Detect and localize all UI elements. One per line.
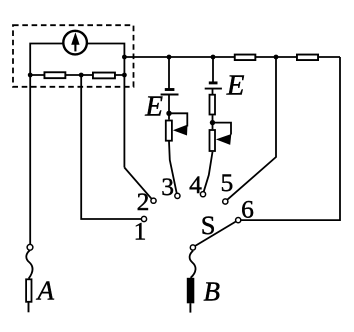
contact 5 bbox=[223, 199, 228, 204]
contact 6 bbox=[236, 218, 241, 223]
junction dot contact5 branch bbox=[274, 55, 279, 60]
rheostat RP2 wiper arm bbox=[213, 123, 232, 135]
wire: contact2 diagonal from bus bbox=[124, 168, 151, 199]
dashed enclosure box around galvanometer assembly bbox=[13, 25, 134, 87]
probe A tip wire bbox=[28, 303, 30, 313]
svg-text:E: E bbox=[144, 90, 163, 122]
junction dot branch2 wiper bbox=[210, 120, 215, 125]
wire: left column to probe A bbox=[29, 75, 31, 244]
wire: galvanometer right lead down to top bus bbox=[87, 44, 125, 168]
junction dot right upper on top bus bbox=[122, 55, 127, 60]
svg-text:4: 4 bbox=[189, 170, 202, 199]
probe A flexible lead bbox=[26, 250, 32, 278]
wire: branch1 bottom to contact 3 bbox=[169, 142, 177, 194]
wire: branch1 between battery and rheostat bbox=[168, 95, 170, 120]
probe A terminal bbox=[27, 244, 33, 250]
probe A body bbox=[26, 279, 31, 302]
wire: galvanometer left lead bbox=[30, 44, 63, 76]
junction dot left bbox=[28, 73, 33, 78]
wire: shunt resistor row bbox=[30, 74, 124, 76]
junction dot right lower bbox=[122, 73, 127, 78]
wire: branch1 top segment bbox=[168, 57, 170, 88]
contact 3 bbox=[175, 193, 180, 198]
wire: branch2 battery to R5 bbox=[212, 89, 214, 94]
wire: right side down to contact 6 bbox=[241, 57, 340, 220]
resistor R1 (left shunt) bbox=[44, 72, 65, 78]
resistor R4 on top bus bbox=[297, 55, 318, 61]
svg-text:B: B bbox=[203, 276, 220, 306]
rheostat RP1 wiper arm bbox=[169, 113, 187, 126]
resistor R5 (branch2 fixed) bbox=[210, 95, 216, 115]
wire: top bus bbox=[124, 56, 340, 58]
contact 2 bbox=[151, 198, 156, 203]
wire: contact5 branch vertical and diagonal bbox=[227, 57, 276, 200]
wire: branch2 between R5 and rheostat bbox=[212, 115, 214, 129]
svg-text:S: S bbox=[201, 210, 216, 240]
svg-text:A: A bbox=[35, 276, 54, 306]
resistor R3 on top bus bbox=[235, 55, 256, 61]
probe B tip wire bbox=[189, 303, 191, 312]
junction dot branch2 bbox=[211, 55, 216, 60]
battery E2 negative plate (short thick) bbox=[209, 81, 218, 84]
probe B body bbox=[187, 278, 195, 304]
battery E1 negative plate (short thick) bbox=[165, 88, 175, 91]
contact 4 bbox=[200, 192, 205, 197]
wire: branch2 top segment bbox=[212, 57, 214, 82]
junction dot middle bbox=[79, 73, 84, 78]
switch S arm bbox=[195, 222, 236, 247]
junction dot branch1 wiper bbox=[166, 111, 171, 116]
battery E1 positive plate (long thin) bbox=[161, 94, 179, 96]
contact 1 bbox=[141, 216, 146, 221]
svg-text:6: 6 bbox=[241, 194, 254, 223]
wire: branch2 bottom to contact 4 bbox=[204, 152, 213, 192]
svg-text:2: 2 bbox=[137, 187, 150, 216]
rheostat RP2 body bbox=[210, 130, 216, 151]
svg-text:5: 5 bbox=[221, 168, 234, 197]
wire: middle column to contact 1 bbox=[81, 75, 141, 219]
galvanometer G bbox=[63, 31, 87, 55]
junction dot branch1 bbox=[167, 55, 172, 60]
resistor R2 (right shunt) bbox=[93, 73, 115, 79]
svg-text:3: 3 bbox=[161, 172, 174, 201]
battery E2 positive plate (long thin) bbox=[205, 88, 222, 90]
switch S pivot bbox=[190, 245, 195, 250]
rheostat RP1 body bbox=[166, 121, 172, 141]
svg-text:1: 1 bbox=[134, 216, 147, 245]
svg-text:E: E bbox=[226, 70, 245, 102]
probe B flexible lead bbox=[190, 251, 196, 278]
